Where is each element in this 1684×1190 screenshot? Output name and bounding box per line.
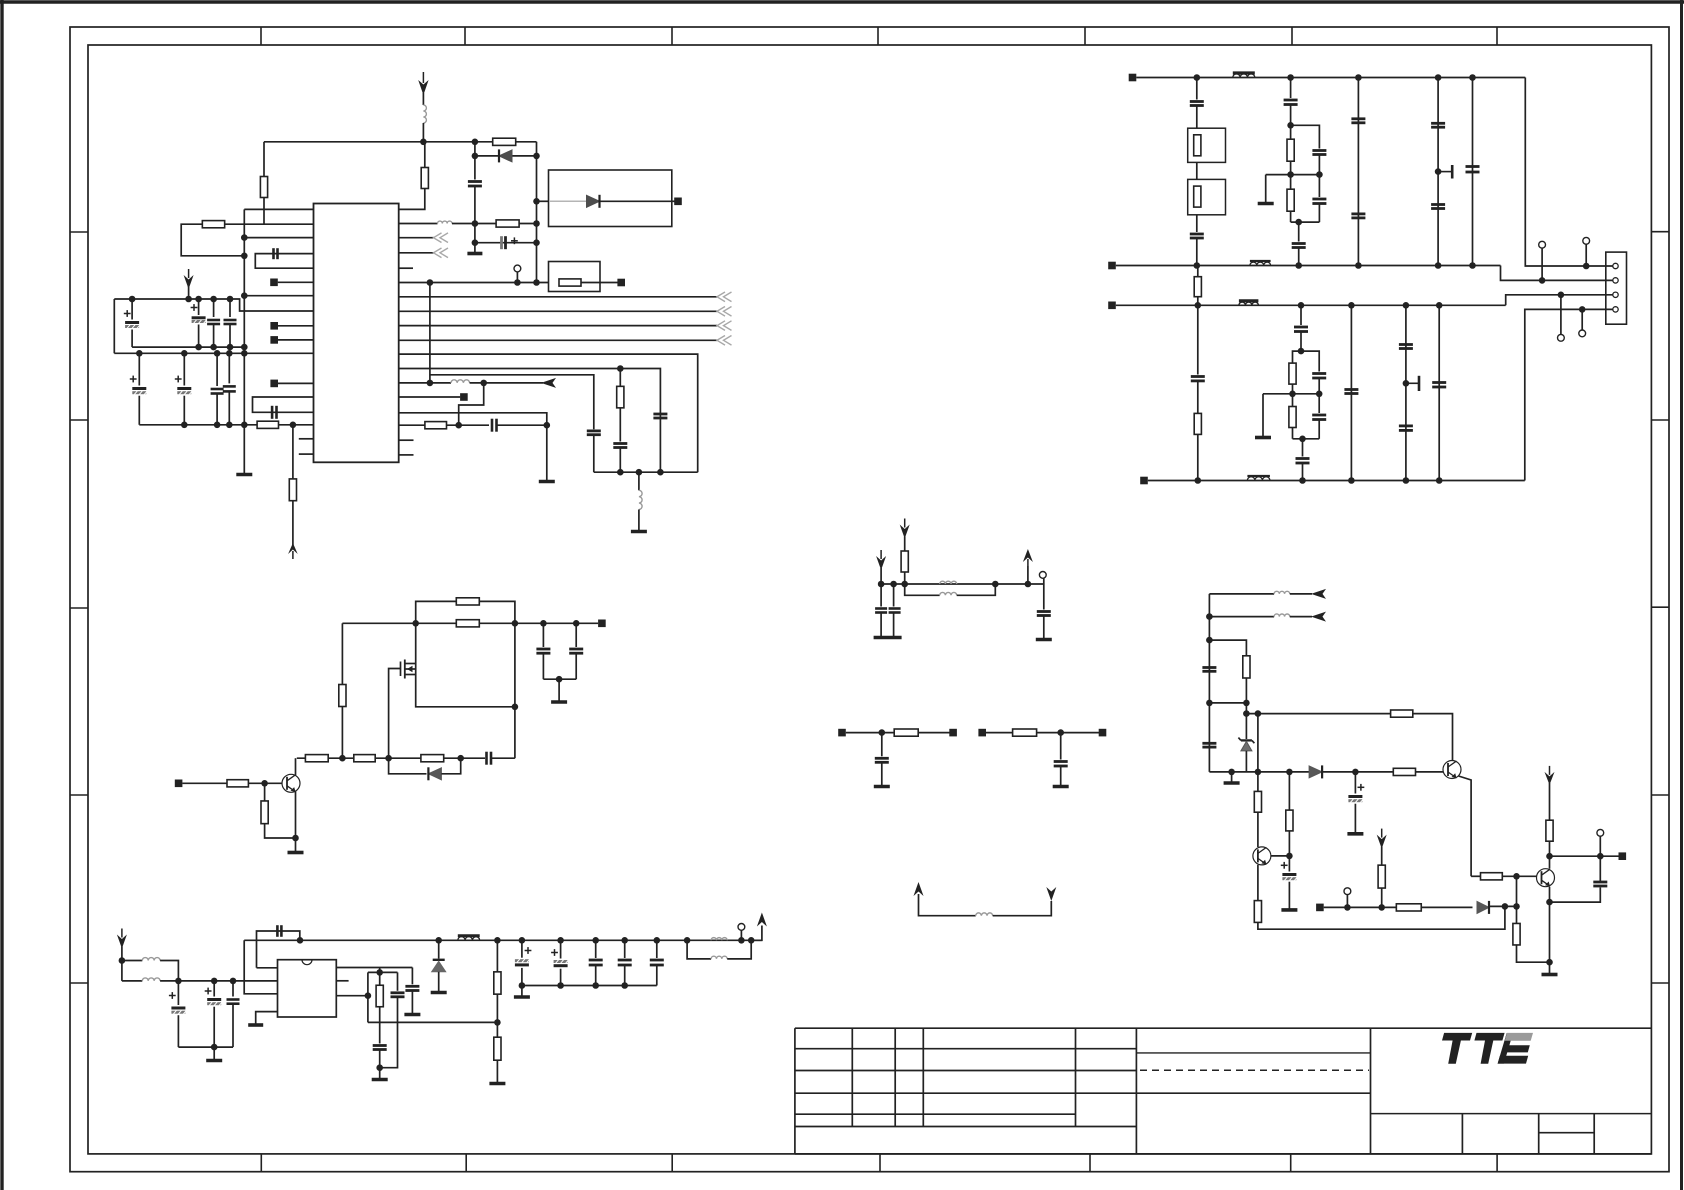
node base div	[261, 780, 268, 787]
capacitor C49 polarized	[554, 964, 568, 967]
wire A7 stem	[880, 568, 882, 584]
wire Q4 emitter	[1549, 887, 1551, 974]
node agc join	[494, 1019, 501, 1026]
resistor R13	[1194, 413, 1201, 434]
crystal XT2 box	[1188, 179, 1226, 214]
capacitor C41 polarized	[171, 1007, 185, 1010]
diode D3	[428, 768, 441, 780]
wire ground column	[243, 209, 245, 473]
wire C5 bottom	[131, 330, 133, 348]
wire TP6 stem	[740, 930, 742, 940]
wire vcc out	[751, 926, 762, 941]
wire U2 gnd lead	[256, 1012, 278, 1024]
border zone tick bottom 6	[1290, 1154, 1292, 1172]
logo cell bottom line	[1371, 1113, 1652, 1115]
node m1 a	[878, 581, 885, 588]
wire R1 left loop	[181, 224, 244, 256]
node Q1 source join	[512, 704, 519, 711]
wire t1 cap	[881, 733, 883, 757]
crystal XT1 box	[1188, 128, 1226, 162]
wire emitter cap row	[1550, 888, 1601, 903]
revision cell dashed line	[1140, 1069, 1369, 1071]
wire C1 down to ground	[474, 186, 476, 253]
wire C16 bot	[593, 435, 595, 473]
wire B1 faded segment	[549, 200, 586, 202]
node pin3 tp	[1558, 292, 1565, 299]
signal arrow A10	[914, 882, 924, 896]
node g2 f	[181, 422, 188, 429]
wire C20 to split	[1290, 105, 1292, 126]
resistor R1	[202, 221, 224, 228]
wire H2 mid row	[1263, 393, 1319, 395]
node rail c18	[540, 620, 547, 627]
twin loop lower right	[957, 584, 996, 595]
wire D4 bot	[438, 972, 440, 992]
node rail right	[512, 620, 519, 627]
wire C12 bottom	[228, 391, 230, 424]
node Q4 e2	[1546, 959, 1553, 966]
resistor R7	[559, 279, 581, 286]
capacitor C32	[1312, 414, 1326, 417]
wire C6 bottom	[198, 325, 200, 348]
node vb c	[592, 982, 599, 989]
node m1 d	[1025, 581, 1032, 588]
wire C48 bot	[521, 968, 523, 986]
node botrow d	[1352, 769, 1359, 776]
wire C10 bottom	[183, 396, 185, 425]
wire H1 top	[1290, 78, 1292, 99]
wire C8 bottom	[229, 324, 231, 347]
wire R33 top	[1288, 772, 1290, 810]
connector J1 pin 1	[1613, 263, 1618, 268]
capacitor C23	[1292, 242, 1306, 245]
wire fb down	[459, 383, 484, 425]
node rail c19	[573, 620, 580, 627]
capacitor C9 polarized	[132, 387, 146, 390]
wire R18 bot	[341, 707, 343, 758]
resistor R33	[1286, 810, 1293, 831]
wire Ra loop	[416, 601, 515, 623]
wire R23 bot	[265, 824, 296, 838]
wire fb col Q4	[1516, 876, 1518, 923]
border zone tick top 7	[1496, 27, 1498, 45]
wire C60 top	[1354, 772, 1356, 794]
wire C54 bot	[880, 613, 882, 637]
node vert-237	[241, 234, 248, 241]
border zone tick bottom 4	[879, 1154, 881, 1172]
resistor R9	[425, 422, 447, 429]
wire TP3 stem	[1541, 248, 1543, 280]
inductor L8	[142, 978, 160, 981]
wire det to D7	[1421, 906, 1472, 908]
long offpage wire 2	[399, 310, 717, 312]
wire H2 right branch	[1301, 351, 1319, 371]
capacitor C24	[1351, 117, 1365, 120]
long offpage wire 1	[399, 296, 717, 298]
wire C9 bottom	[138, 396, 140, 425]
wire C55 bot	[893, 613, 895, 637]
resistor R16	[456, 598, 479, 605]
node lc out	[738, 937, 745, 944]
wire C52 top	[656, 940, 658, 958]
wire mid rail	[342, 622, 598, 624]
diode D6	[1309, 766, 1322, 778]
node coil right	[480, 380, 487, 387]
node g2 h	[226, 422, 233, 429]
logo sub-cell lines	[1462, 1114, 1594, 1154]
capacitor C45	[405, 985, 419, 988]
node rail1 a	[1194, 74, 1201, 81]
wire C49 top	[560, 940, 562, 958]
signal arrow A12	[1311, 589, 1326, 599]
wire H1 C22 top	[1318, 175, 1320, 197]
node cap join	[556, 676, 563, 683]
wire XT2 to C19	[1196, 215, 1198, 232]
node g2 vert	[241, 422, 248, 429]
inductor L10	[711, 938, 727, 941]
capacitor C37	[1432, 381, 1446, 384]
offpage chevron 6	[717, 336, 725, 346]
wire rail drop upper	[263, 142, 265, 177]
border zone tick left 2	[70, 419, 88, 421]
node rail3 d	[1403, 302, 1410, 309]
border zone tick top 3	[671, 27, 673, 45]
wire D4 top	[438, 940, 440, 958]
transistor Q5	[1443, 761, 1461, 779]
wire rail to R2 top	[424, 142, 426, 167]
wire gate row	[297, 757, 485, 759]
wire antenna to rail	[422, 93, 424, 105]
ground G3	[539, 480, 555, 484]
node lc branch	[1206, 637, 1213, 644]
node C3 left	[472, 239, 479, 246]
wire R4 to vert	[519, 223, 536, 225]
supply arrow A6	[757, 913, 767, 927]
node row a	[339, 755, 346, 762]
node rf c	[230, 978, 237, 985]
node bus C14	[657, 469, 664, 476]
capacitor C42 polarized	[207, 998, 221, 1001]
border zone tick top 1	[260, 27, 262, 45]
node rail2 c	[1355, 262, 1362, 269]
wire rail3	[1116, 304, 1506, 306]
node vt b	[435, 937, 442, 944]
wire R34 to Q3	[1257, 812, 1259, 847]
wire C43 top	[232, 981, 234, 997]
wire C18 to XT1	[1196, 106, 1198, 129]
wire C29 to R13	[1197, 381, 1199, 414]
test point TP9	[1597, 829, 1604, 836]
connector J1	[1606, 252, 1627, 324]
wire L2 to node	[452, 223, 496, 225]
capacitor C6 polarized	[192, 316, 206, 319]
test point TP1	[514, 265, 521, 272]
wire col C34	[1350, 305, 1352, 480]
wire rail2 to J1 pin2	[1501, 266, 1615, 281]
resistor R19	[305, 755, 328, 762]
wire bot row	[1209, 771, 1443, 773]
wire branch join	[1209, 702, 1246, 704]
node rail1 e	[1469, 74, 1476, 81]
wire R38 to Q4	[1502, 875, 1536, 877]
node vb d	[621, 982, 628, 989]
node lc out2	[748, 937, 755, 944]
diode D4	[433, 959, 445, 961]
wire rail to C1	[474, 142, 476, 180]
wire R5 to U1	[279, 424, 314, 426]
border zone tick bottom 5	[1089, 1154, 1091, 1172]
wire D7 to nodes	[1489, 905, 1516, 907]
node vt h	[654, 937, 661, 944]
wire diode row	[475, 155, 537, 157]
ferrite bead FB3	[458, 937, 480, 941]
resistor R8	[617, 386, 624, 408]
signal arrow A11	[1046, 887, 1056, 901]
wire A9 stem	[1027, 566, 1029, 584]
wire zener lead	[1245, 714, 1247, 739]
ground G15	[514, 995, 530, 999]
long offpage wire 4	[399, 339, 717, 341]
wire T5 to U1	[278, 382, 314, 384]
border zone tick bottom 3	[671, 1154, 673, 1172]
wire rail3 to J1 pin3	[1506, 295, 1614, 306]
node R4 right	[533, 220, 540, 227]
wire U1 pin 295	[244, 295, 313, 297]
wire TP1 stem	[516, 272, 518, 283]
border zone tick right 1	[1651, 231, 1669, 233]
node bus2 Cf	[181, 350, 188, 357]
node vt f	[592, 937, 599, 944]
node stub2	[1403, 380, 1410, 387]
resistor R24	[376, 985, 383, 1007]
wire A5 stem	[121, 947, 123, 961]
node t1	[879, 729, 886, 736]
resistor R28	[894, 729, 918, 736]
inductor L9	[711, 956, 727, 959]
wire C19 to rail2	[1196, 238, 1198, 266]
node det join	[376, 1064, 383, 1071]
capacitor C51	[618, 959, 632, 962]
terminal pad T7	[460, 393, 468, 401]
wire L4 bot	[638, 510, 640, 531]
ground G13	[372, 1078, 388, 1082]
wire H1 left branch	[1290, 125, 1292, 139]
node rail4 a	[1195, 477, 1202, 484]
ground G4	[631, 530, 647, 534]
wire emitter gnd stem	[295, 838, 297, 852]
wire col C26	[1437, 78, 1439, 266]
wire H2 out	[1302, 439, 1304, 457]
node pin1 tp	[1583, 263, 1590, 270]
wire Q5 emitter out	[1459, 776, 1472, 876]
ground G8	[551, 700, 567, 704]
node H1 mid a	[1287, 171, 1294, 178]
capacitor C54	[875, 607, 887, 610]
node bj a	[1206, 700, 1213, 707]
wire C23 to rail2	[1298, 248, 1300, 266]
terminal pad T16	[978, 729, 986, 737]
node bus div	[617, 469, 624, 476]
node rail Q1	[412, 620, 419, 627]
wire H2 join	[1293, 438, 1320, 440]
wire C42 bot	[213, 1007, 215, 1047]
wire rf return	[178, 1046, 233, 1048]
node balun a	[119, 957, 126, 964]
wire C40 bot	[575, 653, 577, 679]
capacitor C59	[1202, 742, 1216, 745]
node rail3 c	[1348, 302, 1355, 309]
wire C62 top	[1599, 856, 1601, 882]
capacitor C17	[491, 419, 494, 432]
wire U1 pin left 1	[244, 208, 313, 210]
terminal pad T18	[1316, 904, 1324, 912]
inductor L1	[423, 105, 426, 123]
resistor R23	[261, 801, 268, 824]
node t2	[1057, 729, 1064, 736]
resistor R5	[257, 421, 278, 428]
terminal pad T1	[674, 198, 682, 206]
ground G1	[467, 252, 482, 256]
capacitor C40	[569, 648, 583, 651]
node seg r	[376, 969, 383, 976]
node botrow c	[1286, 769, 1293, 776]
capacitor C12	[223, 385, 236, 388]
wire r2 end	[1290, 616, 1312, 618]
resistor R18	[339, 685, 346, 707]
node br	[1255, 710, 1262, 717]
border zone tick top 4	[877, 27, 879, 45]
wire H2 C32 top	[1318, 394, 1320, 413]
wire C8 top	[229, 299, 231, 317]
wire m3	[919, 894, 976, 916]
node rail2 d	[1435, 262, 1442, 269]
wire C17 right	[497, 424, 547, 426]
wire vert 429	[429, 283, 431, 383]
wire C51 top	[624, 940, 626, 958]
wire H2 gnd stem	[1262, 394, 1264, 436]
capacitor C18	[1190, 100, 1204, 103]
border zone tick bottom 1	[260, 1154, 262, 1172]
twin loop lower	[905, 584, 940, 595]
inductor L3	[451, 380, 470, 383]
ferrite bead FB1	[1233, 74, 1255, 78]
node coil left	[427, 380, 434, 387]
wire rail1	[1136, 77, 1525, 79]
resistor RX1	[1194, 135, 1201, 156]
wire bus1-bus2 link	[113, 299, 115, 353]
wire C53 bot	[1043, 616, 1045, 639]
wire rail corner R18	[341, 623, 343, 684]
transistor Q3	[1253, 847, 1271, 865]
node rail4 d	[1403, 477, 1410, 484]
wire H1 mid row	[1266, 174, 1320, 176]
capacitor C33	[1296, 457, 1310, 460]
offpage chevron 4	[717, 307, 725, 317]
transistor Q4	[1537, 869, 1555, 887]
inductor L4	[639, 490, 642, 509]
wire det row	[1324, 906, 1397, 908]
node vt a	[297, 937, 304, 944]
wire Q2 collector	[295, 758, 297, 775]
border zone tick right 5	[1651, 982, 1669, 984]
wire VCC top rail	[264, 141, 537, 143]
U1 stub right 1	[399, 439, 414, 441]
wire fb col	[244, 940, 277, 994]
terminal pad T15	[949, 729, 957, 737]
node rail3 e	[1436, 302, 1443, 309]
node row c	[457, 755, 464, 762]
wire H1 gnd stem	[1265, 175, 1267, 202]
wire U1 out 412	[399, 413, 547, 481]
wire Q3 emitter	[1257, 865, 1259, 901]
wire C11 bottom	[216, 394, 218, 425]
wire C7 top	[213, 299, 215, 317]
wire botrow gnd stem	[1231, 772, 1233, 782]
U1 stub right 268	[399, 267, 413, 269]
capacitor C29	[1191, 375, 1205, 378]
capacitor C13 loop	[253, 397, 314, 412]
node rail1 c	[1355, 74, 1362, 81]
resistor RX2	[1194, 186, 1201, 207]
wire R2 to U1 pin	[399, 189, 425, 210]
node rail3 a	[1195, 302, 1202, 309]
resistor R30	[1243, 656, 1250, 678]
wire zener bot	[1245, 751, 1247, 772]
test point TP6	[738, 924, 745, 931]
wire r2	[1209, 616, 1274, 618]
node vt g	[621, 937, 628, 944]
wire A2 to bus	[188, 286, 190, 299]
node L2-C2	[472, 220, 479, 227]
wire C5 top	[131, 299, 133, 320]
wire cap group2 return	[139, 424, 257, 426]
wire reg col mid	[496, 994, 498, 1037]
wire balun left	[121, 961, 123, 981]
node g1 c	[210, 344, 217, 351]
capacitor C22	[1312, 198, 1326, 201]
node pinC	[365, 992, 372, 999]
capacitor C47	[391, 991, 405, 994]
node C3 right	[533, 239, 540, 246]
wire R15 top	[1292, 394, 1294, 407]
wire C31 bot	[1318, 378, 1320, 394]
offpage chevron a	[434, 233, 442, 243]
module box B2	[549, 262, 601, 292]
wire R34 top	[1257, 772, 1259, 792]
node H2 mid a	[1289, 391, 1296, 398]
wire div col top	[619, 369, 621, 387]
node bus2 Ch	[226, 350, 233, 357]
wire C21 to mid	[1318, 155, 1320, 175]
wire col R13 top	[1197, 305, 1199, 374]
node H2 join	[1299, 436, 1306, 443]
wire R9 to C17	[447, 424, 489, 426]
wire Q4 base	[1471, 875, 1480, 877]
wire through B1	[537, 200, 550, 202]
capacitor C48 polarized	[515, 963, 529, 966]
wire join gnd stem	[558, 679, 560, 701]
ground G9	[206, 1059, 222, 1063]
node coll b	[1597, 853, 1604, 860]
wire C11 top	[216, 353, 218, 386]
wire C41 top	[177, 981, 179, 1005]
wire offpage b	[399, 252, 434, 254]
node pin4 tp	[1579, 306, 1586, 313]
title block row lines	[795, 1049, 1371, 1127]
capacitor C55	[889, 607, 901, 610]
wire T7 to U1	[399, 396, 461, 398]
inductor L15	[1274, 614, 1290, 617]
